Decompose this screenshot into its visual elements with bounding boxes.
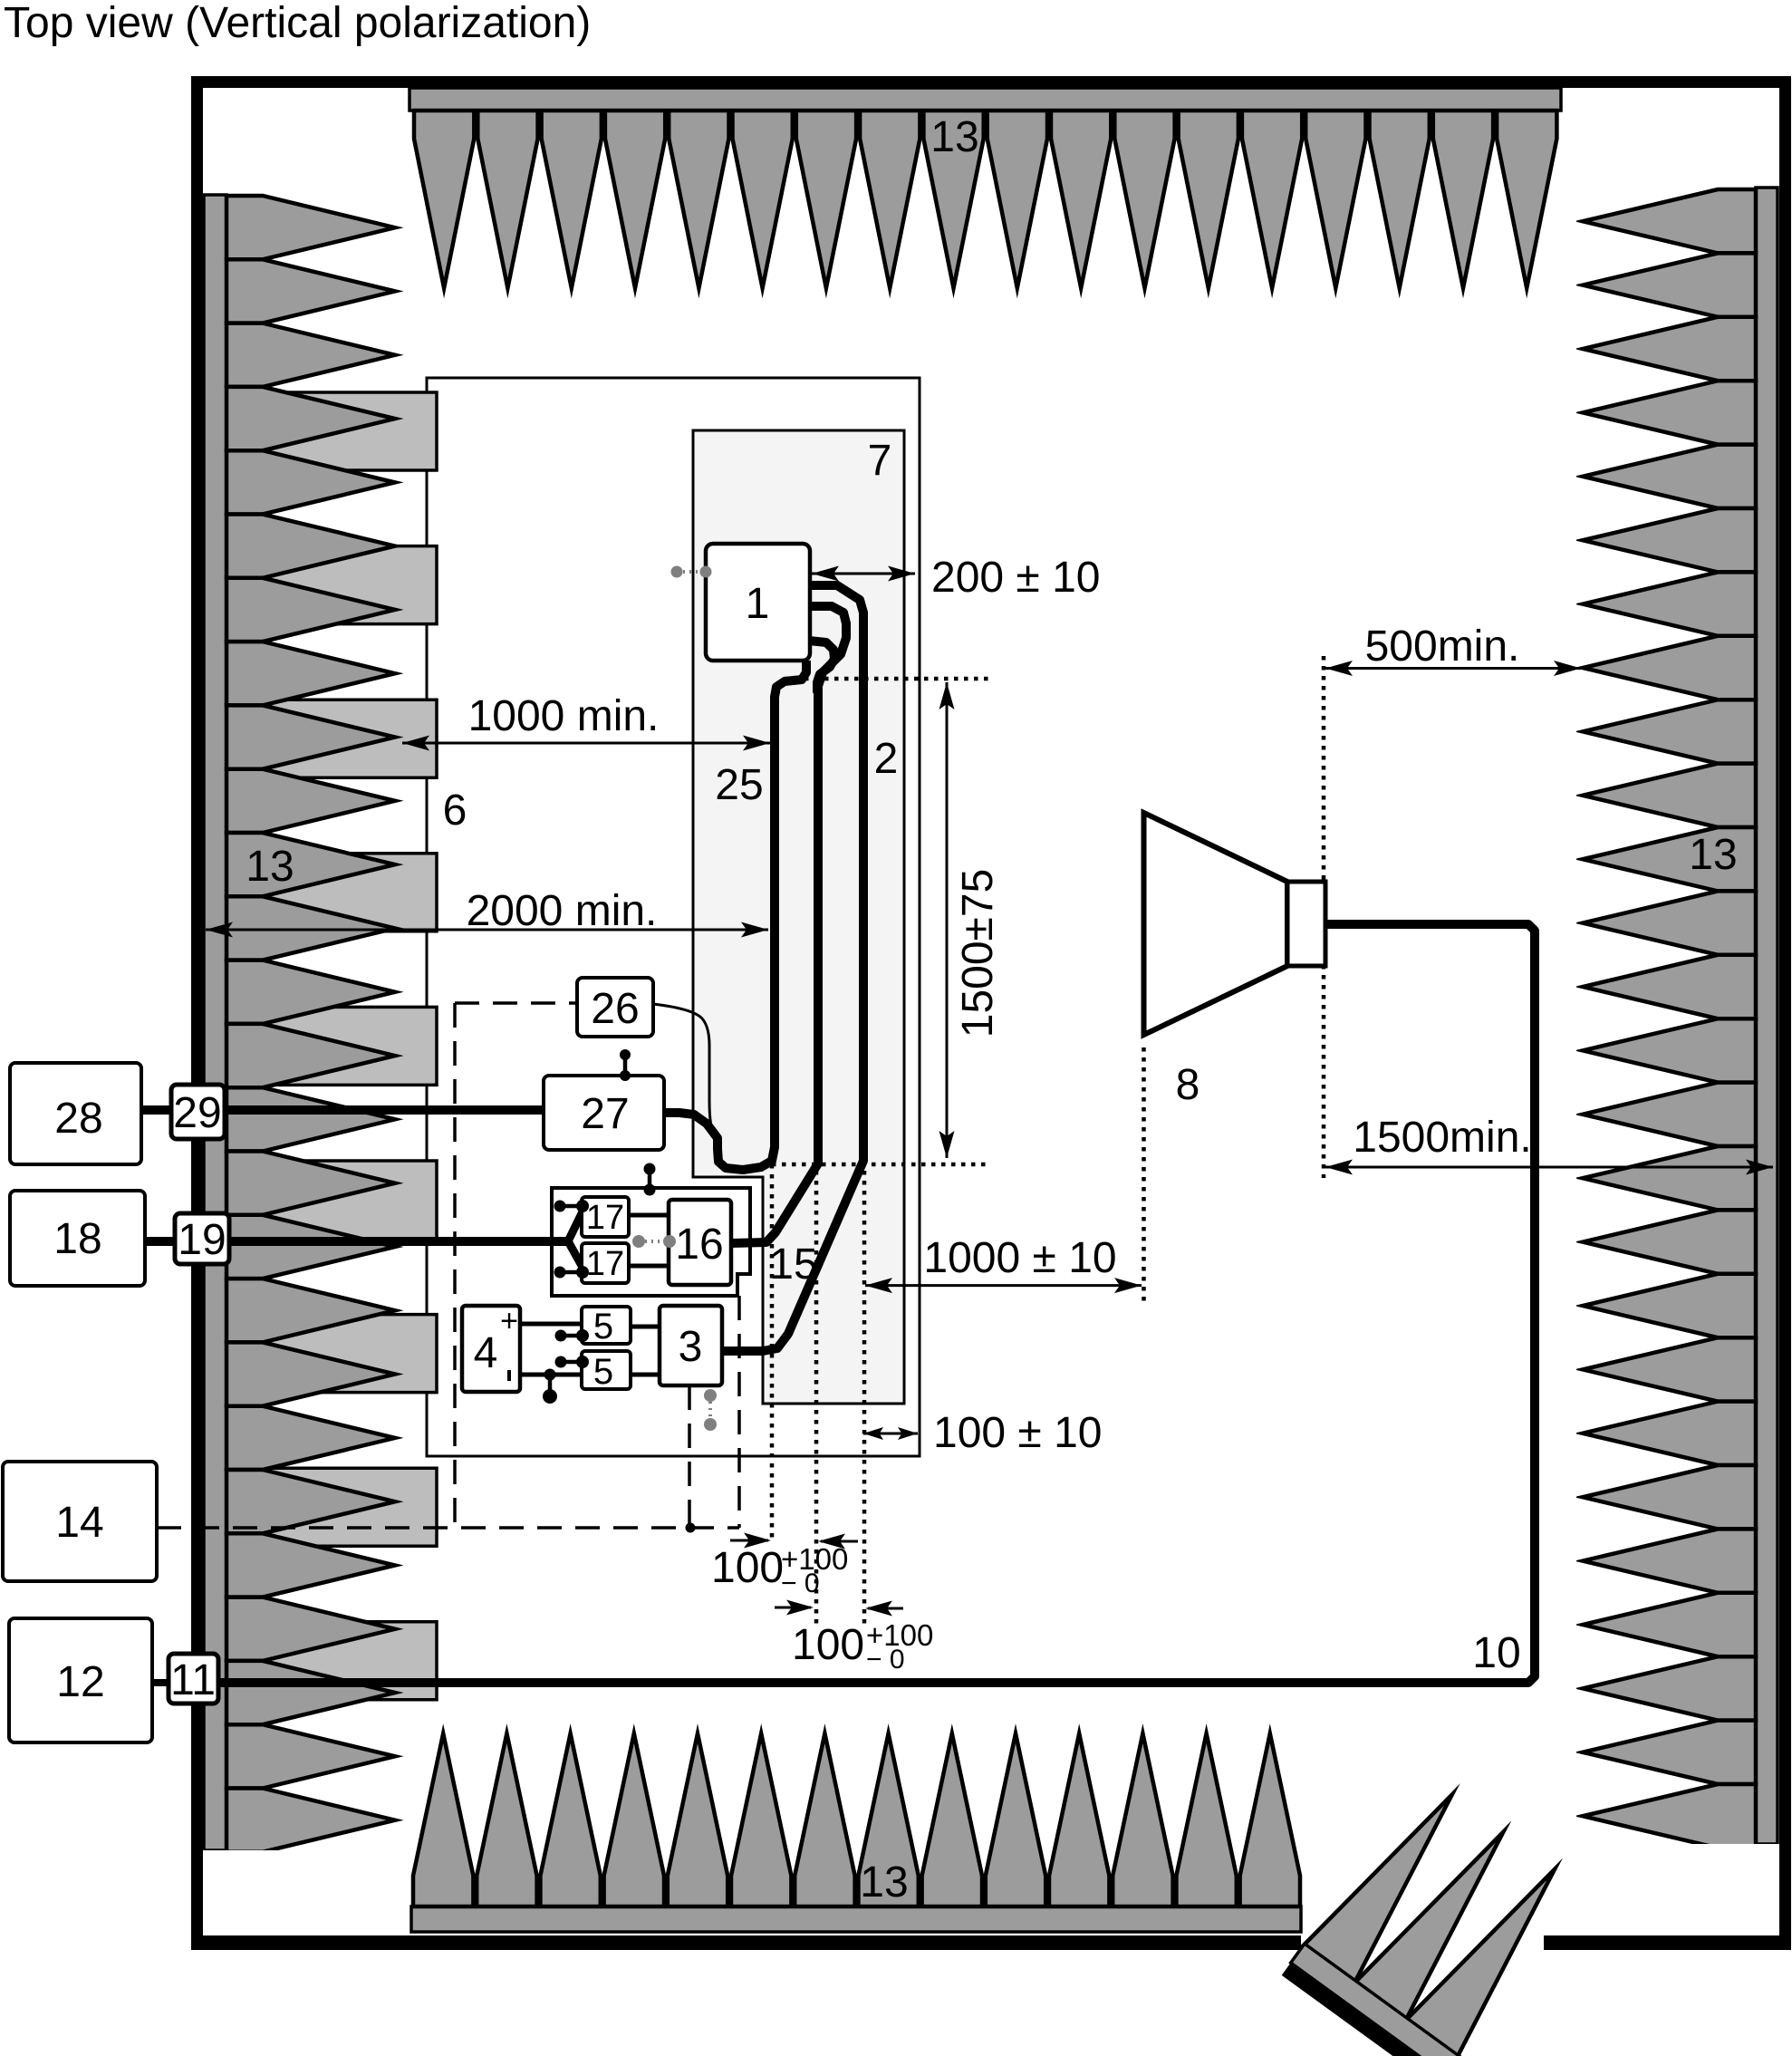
svg-text:17: 17 (586, 1199, 624, 1237)
svg-text:4: 4 (474, 1329, 498, 1377)
svg-text:19: 19 (178, 1216, 226, 1264)
svg-text:11: 11 (170, 1656, 216, 1704)
svg-text:29: 29 (173, 1089, 221, 1137)
svg-text:200 ± 10: 200 ± 10 (931, 554, 1101, 602)
svg-text:Top view (Vertical polarizatio: Top view (Vertical polarization) (4, 0, 591, 47)
svg-text:100 ± 10: 100 ± 10 (933, 1409, 1103, 1457)
svg-text:− 0: − 0 (781, 1569, 820, 1598)
svg-text:18: 18 (53, 1215, 101, 1263)
svg-text:13: 13 (246, 843, 294, 891)
svg-text:1500±75: 1500±75 (954, 869, 1002, 1038)
svg-text:500min.: 500min. (1365, 623, 1520, 671)
svg-text:14: 14 (55, 1499, 103, 1547)
svg-text:27: 27 (581, 1090, 629, 1138)
svg-text:15: 15 (769, 1240, 817, 1289)
svg-text:+: + (500, 1304, 518, 1338)
svg-text:6: 6 (443, 787, 467, 835)
svg-text:17: 17 (586, 1245, 624, 1283)
svg-text:1: 1 (746, 580, 770, 628)
svg-text:16: 16 (675, 1221, 723, 1269)
svg-text:10: 10 (1472, 1629, 1520, 1677)
svg-text:28: 28 (54, 1095, 102, 1143)
svg-text:1500min.: 1500min. (1353, 1114, 1531, 1162)
svg-text:− 0: − 0 (866, 1645, 905, 1675)
svg-text:5: 5 (593, 1307, 613, 1347)
svg-text:13: 13 (930, 113, 978, 161)
svg-text:2: 2 (874, 735, 899, 783)
svg-text:12: 12 (56, 1658, 104, 1706)
svg-text:100: 100 (711, 1544, 784, 1592)
svg-text:3: 3 (679, 1323, 703, 1371)
svg-text:1000 ± 10: 1000 ± 10 (923, 1234, 1116, 1282)
svg-text:1000 min.: 1000 min. (468, 692, 660, 740)
svg-text:13: 13 (860, 1858, 908, 1906)
svg-text:8: 8 (1176, 1061, 1200, 1109)
svg-text:25: 25 (715, 761, 763, 809)
svg-text:2000 min.: 2000 min. (467, 887, 658, 935)
svg-text:7: 7 (868, 437, 892, 485)
svg-text:13: 13 (1689, 831, 1737, 879)
svg-text:5: 5 (593, 1352, 613, 1392)
svg-text:26: 26 (591, 985, 639, 1033)
svg-text:100: 100 (792, 1621, 864, 1669)
